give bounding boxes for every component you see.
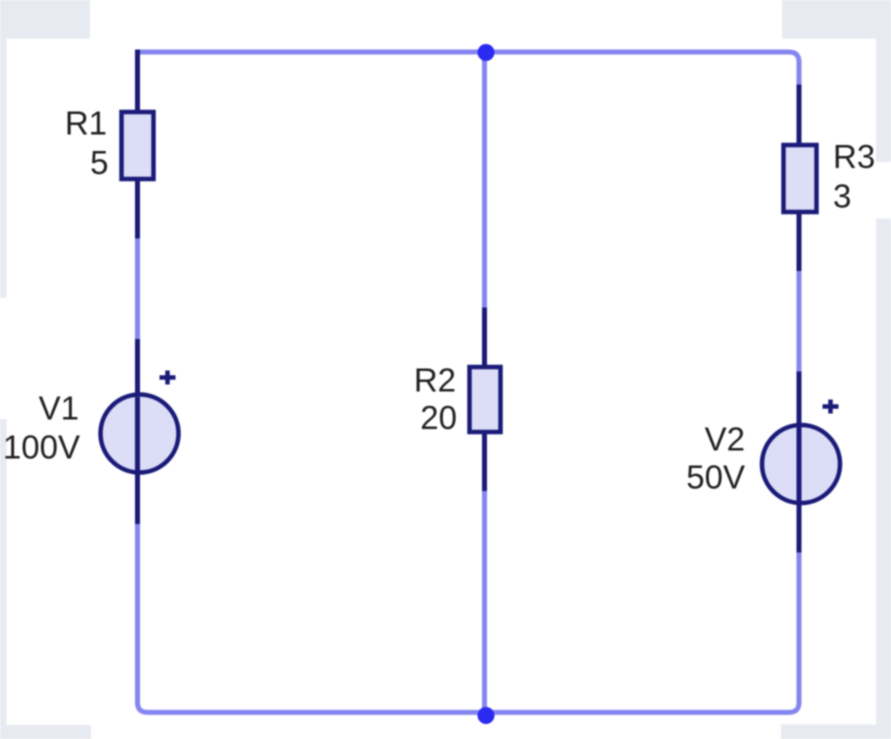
page background strip right edge [876,39,891,163]
resistor R3 top lead [797,85,802,146]
resistor R2 top lead [482,308,487,368]
resistor R3 bottom lead [797,212,802,271]
voltage source V2 plus sign [823,400,839,414]
resistor R1 top lead [135,50,140,113]
voltage source V1 through line [135,397,140,471]
svg-text:V2: V2 [705,421,745,458]
voltage source V1 plus sign [160,371,176,385]
page background patch top-right [782,0,891,39]
svg-text:R1: R1 [65,105,107,142]
svg-text:V1: V1 [39,390,79,427]
voltage source V2 body [762,425,840,503]
wire middle branch upper segment [482,52,487,308]
svg-text:R3: R3 [833,138,875,175]
page background patch top-left [0,0,90,39]
wire right branch upper segment (corner to R3) [797,85,802,87]
node junction dot top [478,44,495,61]
voltage source V2 bottom lead [797,501,802,553]
voltage source V1 body [101,395,179,473]
wire left branch lower segment with rounded bottom-left corner [138,524,487,712]
svg-text:3: 3 [833,178,851,215]
voltage source V2 through line [797,427,802,501]
svg-text:20: 20 [420,399,457,436]
resistor R1 body [122,112,154,179]
svg-text:5: 5 [90,144,108,181]
voltage source V1 top lead [135,339,140,397]
svg-text:100V: 100V [3,429,80,466]
page background strip left edge lower [0,419,7,739]
svg-text:50V: 50V [686,459,745,496]
resistor R2 body [470,367,501,432]
resistor R3 body [784,145,817,212]
wire top horizontal with rounded top-right corner [136,52,800,85]
node junction dot bottom [478,707,495,724]
wire bottom horizontal right part with rounded bottom-right corner [486,553,799,713]
page background patch bottom-left [0,725,91,739]
wire middle branch lower segment [482,491,487,712]
page background strip left edge upper [0,39,7,299]
wire right branch segment R3 bottom to V2 top [797,271,802,372]
resistor R1 bottom lead [135,179,140,239]
voltage source V2 top lead [797,372,802,428]
wire left branch upper segment (R1 bottom to V1 top) [135,239,140,340]
resistor R2 bottom lead [482,432,487,491]
svg-text:R2: R2 [414,362,456,399]
voltage source V1 bottom lead [135,471,140,524]
page background patch bottom-right [781,725,891,739]
